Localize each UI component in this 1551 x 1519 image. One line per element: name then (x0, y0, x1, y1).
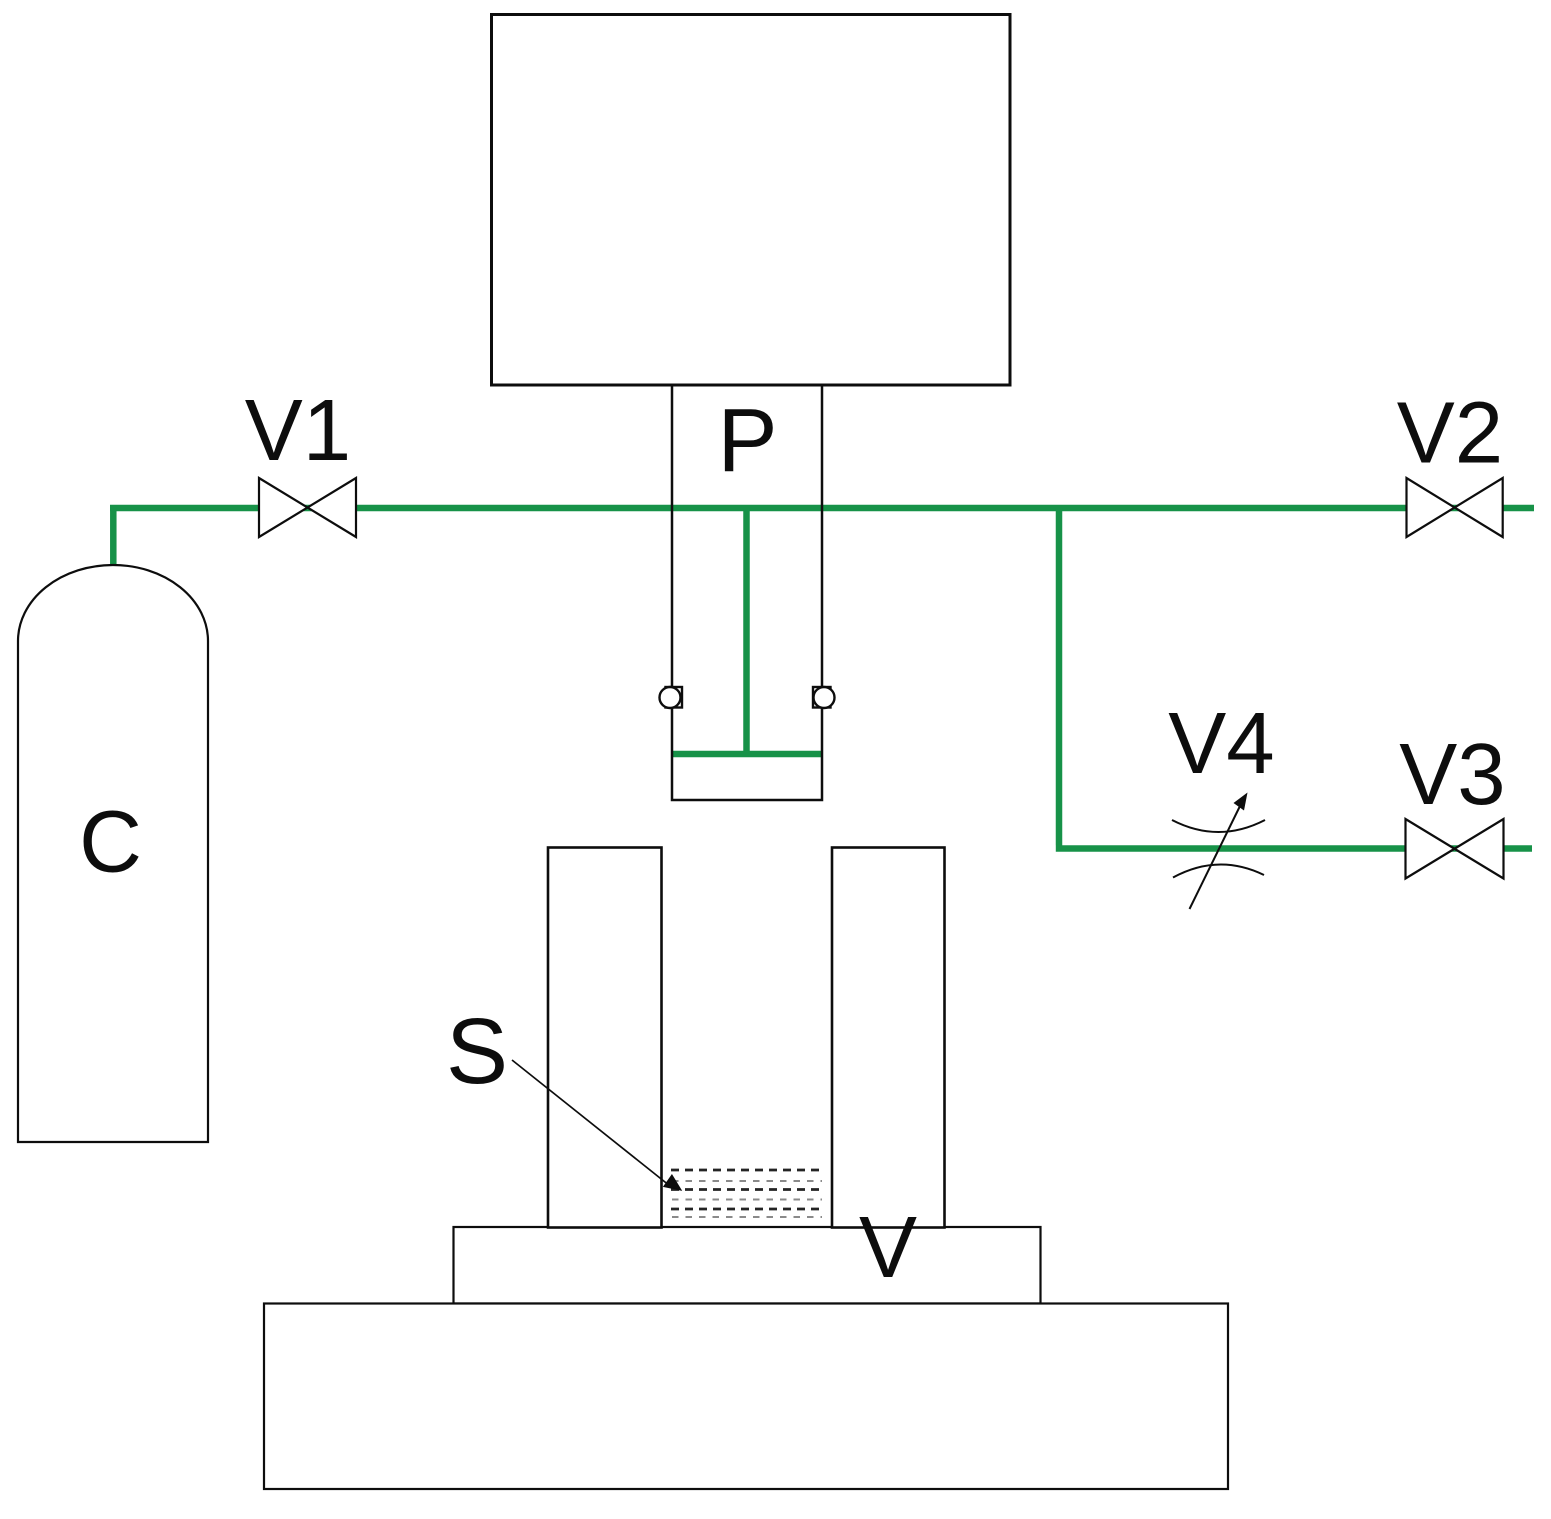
valve V4 arrow stem (1190, 806, 1241, 909)
press head block (492, 15, 1011, 386)
vessel pedestal step (454, 1227, 1041, 1304)
svg-text:V2: V2 (1397, 385, 1503, 482)
piston P body (672, 385, 822, 800)
trunnion left on piston (660, 687, 683, 708)
svg-text:S: S (446, 999, 508, 1103)
valve V2 (1407, 478, 1503, 537)
trunnion right on piston (813, 687, 835, 708)
wire: branch down to vent line and across to V3 (1056, 508, 1532, 849)
valve V3 (1406, 819, 1504, 879)
vessel base slab (264, 1304, 1228, 1490)
svg-text:C: C (79, 794, 142, 891)
svg-text:V1: V1 (245, 382, 351, 479)
svg-text:V: V (859, 1199, 917, 1296)
gas cylinder C (18, 565, 208, 1142)
leader arrow from S to sample (512, 1060, 670, 1186)
vessel V left wall (548, 848, 662, 1228)
wire: drop from main line to cylinder C (110, 505, 117, 567)
valve V4 lower arc (1173, 864, 1264, 877)
wire: crossbar at piston foot (672, 751, 822, 758)
svg-text:V3: V3 (1399, 726, 1505, 823)
wire: main gas line from cylinder to V2 outlet (110, 505, 1534, 512)
sample S dashed layers (671, 1170, 823, 1217)
svg-text:V4: V4 (1168, 695, 1274, 792)
wire: gas feed inside piston P (743, 508, 750, 754)
valve V1 (259, 478, 356, 537)
valve V4 (variable restriction) upper arc (1172, 820, 1265, 832)
vessel V right wall (832, 848, 945, 1228)
valve V4 arrow head (1234, 793, 1248, 811)
svg-text:P: P (717, 391, 777, 491)
